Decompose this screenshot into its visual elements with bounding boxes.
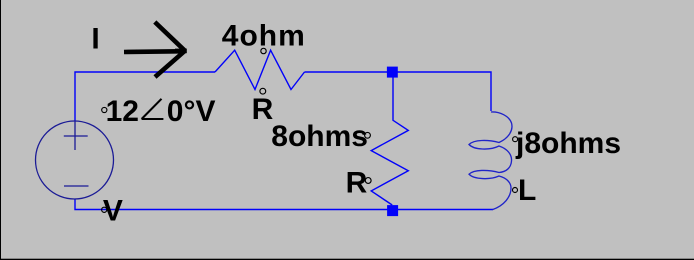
svg-text:R: R [252,93,274,126]
svg-text:0°V: 0°V [167,95,216,128]
svg-text:j8ohms: j8ohms [515,127,621,160]
svg-text:4ohm: 4ohm [222,19,306,52]
svg-text:L: L [518,174,536,207]
svg-text:R: R [346,166,368,199]
svg-text:8ohms: 8ohms [271,120,368,153]
svg-text:12: 12 [106,95,139,128]
svg-text:V: V [103,194,123,227]
svg-text:I: I [91,23,99,56]
